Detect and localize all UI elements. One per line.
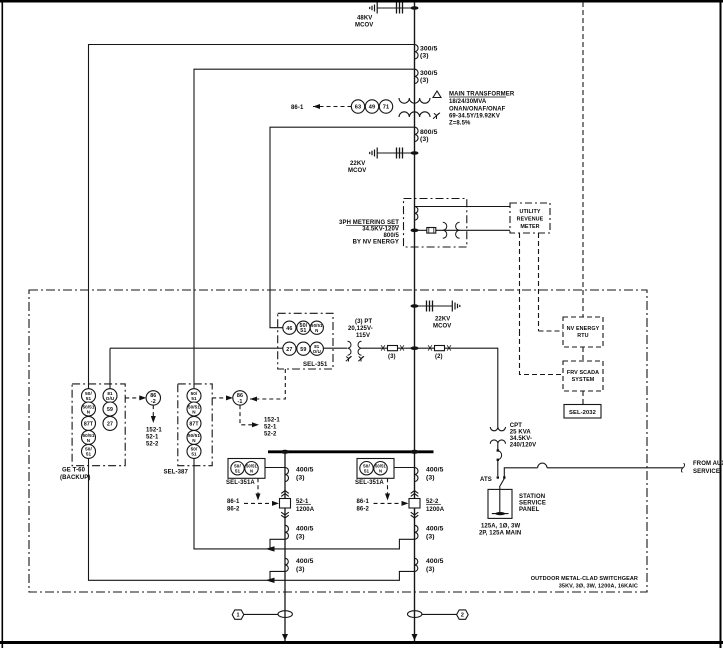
svg-text:1200A: 1200A (426, 507, 445, 513)
label 3PH METERING SET (339, 220, 400, 246)
node hexagon 1 (232, 610, 244, 619)
svg-text:2P, 125A MAIN: 2P, 125A MAIN (479, 531, 521, 537)
wye ground symbol (433, 113, 440, 119)
svg-text:SEL-351A: SEL-351A (226, 480, 255, 486)
svg-text:152-1: 152-1 (264, 418, 280, 424)
svg-text:ONAN/ONAF/ONAF: ONAN/ONAF/ONAF (449, 106, 506, 112)
CT feeder2 400/5 upper (415, 468, 419, 482)
svg-text:800/5: 800/5 (383, 233, 399, 239)
svg-text:SERVICE, 2: SERVICE, 2 (693, 469, 723, 475)
svg-text:71: 71 (383, 105, 389, 111)
wire SCADA to SEL-2032 (582, 391, 584, 405)
svg-text:35KV, 3Ø, 3W, 1200A, 16KAIC: 35KV, 3Ø, 3W, 1200A, 16KAIC (559, 584, 638, 590)
svg-text:22KV: 22KV (350, 161, 365, 167)
svg-text:FROM AUX: FROM AUX (693, 461, 723, 467)
GE T-60 relay box (72, 384, 125, 466)
wire PT to bus (362, 347, 415, 349)
svg-text:152-1: 152-1 (146, 428, 162, 434)
svg-text:SEL-2032: SEL-2032 (569, 410, 596, 416)
svg-text:SEL-351A: SEL-351A (355, 480, 384, 486)
svg-text:300/5: 300/5 (420, 46, 438, 53)
node feeder 2 tap (411, 450, 419, 454)
CT feeder1 400/5 upper (285, 468, 289, 482)
wire bus to CPT feed (415, 348, 498, 427)
svg-text:400/5: 400/5 (296, 467, 314, 474)
svg-text:400/5: 400/5 (426, 467, 444, 474)
node arrester junction 22kv upper (411, 151, 419, 155)
svg-text:86-2: 86-2 (227, 507, 240, 513)
PT metering windings (443, 222, 460, 238)
svg-text:27: 27 (286, 347, 292, 353)
svg-text:-2: -2 (151, 399, 156, 405)
fuse CPT cutout (497, 449, 502, 461)
node feeder 1 tap (281, 450, 289, 454)
wire feeder2 exit arrow (412, 634, 418, 641)
svg-text:86-1: 86-1 (227, 499, 240, 505)
PT station service voltage transformers (346, 341, 364, 361)
svg-text:52-1: 52-1 (146, 435, 159, 441)
wire dashed telemetry from top (582, 2, 584, 317)
svg-text:FRV SCADA: FRV SCADA (567, 370, 599, 376)
svg-text:O/U: O/U (106, 396, 115, 401)
CPT transformer (490, 427, 505, 444)
svg-text:51: 51 (235, 468, 241, 473)
svg-text:(3) PT: (3) PT (355, 319, 373, 325)
wire CT lower secondary (270, 571, 285, 580)
svg-text:UTILITY: UTILITY (519, 209, 540, 215)
svg-text:51: 51 (191, 396, 197, 401)
wire feeder 1 vertical (284, 452, 286, 641)
wire SEL-351A trip dashed (257, 478, 259, 494)
transformer T1 main windings (399, 98, 430, 117)
svg-text:(3): (3) (388, 354, 396, 360)
svg-text:(3): (3) (420, 77, 429, 84)
svg-text:SYSTEM: SYSTEM (572, 377, 595, 383)
switch ATS blade (499, 479, 504, 488)
node hexagon 2 (457, 610, 469, 619)
wire SEL-351A trip dashed f2 (387, 478, 389, 494)
svg-text:400/5: 400/5 (426, 526, 444, 533)
node arrester junction 22kv inner (411, 304, 419, 308)
wire RTU to SCADA (582, 347, 584, 361)
svg-text:51: 51 (300, 328, 306, 334)
wire main 69kV/34.5kV bus vertical (414, 2, 416, 641)
svg-text:(3): (3) (420, 53, 429, 60)
svg-text:59: 59 (300, 347, 306, 353)
label switchgear (531, 576, 638, 590)
wire SEL-351 to 86-1 dashed (250, 369, 285, 399)
svg-text:(3): (3) (426, 566, 435, 573)
SEL-2032 box (564, 405, 601, 419)
breaker 52-1 (281, 491, 289, 497)
relay 86-2 lockout (125, 397, 140, 399)
node PT junction on bus (411, 346, 419, 350)
svg-text:63: 63 (355, 105, 361, 111)
relay 86-1 lockout (212, 397, 226, 399)
svg-text:86-2: 86-2 (357, 507, 370, 513)
svg-text:34.5KV-: 34.5KV- (510, 436, 532, 442)
svg-text:(3): (3) (426, 475, 435, 482)
svg-text:34.5KV-120V: 34.5KV-120V (362, 227, 399, 233)
CT metering 800/5 (415, 207, 418, 221)
svg-text:48KV: 48KV (357, 16, 372, 22)
svg-text:(3): (3) (296, 534, 305, 541)
svg-text:(3): (3) (420, 136, 429, 143)
metering set box (404, 199, 467, 248)
node arrester junction top (411, 6, 419, 10)
svg-text:(BACKUP): (BACKUP) (60, 475, 90, 481)
FRV SCADA SYSTEM box (563, 361, 603, 391)
wire CT3 secondary to SEL-351 (270, 127, 415, 328)
svg-text:GE T-60: GE T-60 (62, 468, 86, 474)
SEL-351 relay box (278, 313, 333, 369)
CT 300/5 first (415, 45, 438, 60)
svg-text:MCOV: MCOV (433, 324, 451, 330)
svg-text:87T: 87T (189, 421, 199, 427)
svg-text:ATS: ATS (480, 477, 492, 483)
wire CT1 secondary to GE T-60 (89, 45, 415, 581)
svg-text:SEL-387: SEL-387 (164, 470, 189, 476)
svg-text:51: 51 (364, 468, 370, 473)
utility revenue meter box (510, 203, 550, 233)
svg-text:69-34.5Y/19.92KV: 69-34.5Y/19.92KV (449, 114, 500, 120)
svg-text:N: N (192, 410, 196, 415)
wire to hexagon 1 (244, 613, 278, 615)
fuse PT (3) (381, 345, 404, 360)
wire metering CT secondary (415, 206, 511, 208)
svg-text:BY NV ENERGY: BY NV ENERGY (353, 240, 399, 246)
wire feeder1 exit arrow (282, 634, 288, 641)
svg-text:400/5: 400/5 (426, 558, 444, 565)
svg-text:86-1: 86-1 (291, 105, 304, 111)
svg-text:SERVICE: SERVICE (519, 501, 546, 507)
svg-text:REVENUE: REVENUE (517, 217, 544, 223)
CT feeder1 400/5 mid (285, 525, 289, 539)
wire CT to SEL-351A (258, 467, 285, 469)
arrester 22KV MCOV inner (415, 301, 460, 330)
wire PT secondary line to relays (110, 347, 347, 349)
wire CT2 secondary to SEL-387 (194, 69, 415, 549)
wire CT mid secondary (270, 539, 285, 549)
svg-text:MCOV: MCOV (355, 23, 373, 29)
breaker 52-2 (411, 491, 419, 497)
svg-text:STATION: STATION (519, 494, 545, 500)
relay SEL-351A feeder2 (357, 459, 394, 479)
svg-text:CPT: CPT (510, 423, 523, 429)
svg-text:N: N (192, 438, 196, 443)
svg-text:RTU: RTU (577, 333, 588, 339)
wire CPT secondary down (497, 444, 499, 450)
arrester 48KV MCOV (355, 3, 415, 29)
relay SEL-351A feeder1 (228, 459, 265, 479)
svg-text:1: 1 (236, 613, 239, 619)
bus main switchgear bus bar (268, 450, 434, 453)
relay 63 49 71 transformer devices (291, 100, 393, 113)
node metering junction (411, 229, 419, 233)
svg-text:51: 51 (86, 396, 92, 401)
svg-text:125A, 1Ø, 3W: 125A, 1Ø, 3W (481, 524, 520, 530)
svg-text:52-1: 52-1 (264, 425, 277, 431)
svg-text:Z=8.5%: Z=8.5% (449, 121, 471, 127)
station service panel (488, 489, 512, 518)
switchgear boundary (29, 290, 647, 592)
svg-text:MCOV: MCOV (348, 168, 366, 174)
svg-text:PANEL: PANEL (519, 507, 540, 513)
svg-text:2: 2 (461, 613, 464, 619)
wire to hexagon 2 (422, 613, 457, 615)
svg-text:NV ENERGY: NV ENERGY (567, 326, 600, 332)
CT feeder1 400/5 lower (285, 558, 288, 571)
svg-text:O/U: O/U (313, 349, 321, 354)
SEL-387 relay box (178, 384, 212, 466)
label MAIN TRANSFORMER (449, 92, 515, 127)
svg-text:(3): (3) (296, 566, 305, 573)
svg-text:SEL-351: SEL-351 (303, 362, 328, 368)
svg-text:800/5: 800/5 (420, 129, 438, 136)
svg-text:N: N (87, 410, 91, 415)
svg-text:27: 27 (107, 421, 113, 427)
fuse CPT (2) (428, 345, 451, 360)
svg-text:18/24/30MVA: 18/24/30MVA (449, 99, 487, 105)
svg-text:N: N (87, 438, 91, 443)
wire metering PT line (415, 229, 511, 231)
svg-text:52-2: 52-2 (264, 432, 277, 438)
wire from aux service (504, 468, 683, 477)
svg-text:25 KVA: 25 KVA (510, 430, 532, 436)
svg-text:51: 51 (191, 452, 197, 457)
svg-text:51: 51 (86, 452, 92, 457)
CT feeder2 400/5 mid (415, 525, 419, 539)
svg-text:87T: 87T (84, 421, 94, 427)
svg-text:OUTDOOR METAL-CLAD SWITCHGEAR: OUTDOOR METAL-CLAD SWITCHGEAR (531, 576, 638, 582)
fuse metering (427, 228, 436, 234)
svg-text:300/5: 300/5 (420, 70, 438, 77)
CT 300/5 second (415, 69, 438, 84)
svg-text:N: N (250, 468, 253, 473)
delta symbol (433, 91, 441, 98)
svg-text:400/5: 400/5 (296, 558, 314, 565)
wire CT to SEL-351A f2 (388, 467, 415, 469)
svg-text:20,125V-: 20,125V- (348, 326, 373, 332)
svg-text:59: 59 (107, 407, 113, 413)
svg-text:(3): (3) (296, 475, 305, 482)
NV ENERGY RTU box (563, 317, 603, 347)
wire dashed from meter to RTU (520, 233, 539, 331)
svg-text:(3): (3) (426, 534, 435, 541)
svg-text:N: N (379, 468, 382, 473)
svg-text:46: 46 (286, 326, 292, 332)
svg-text:115V: 115V (356, 333, 370, 339)
svg-text:-1: -1 (238, 399, 243, 405)
cable termination feeder2 (408, 611, 422, 618)
svg-text:86-1: 86-1 (357, 499, 370, 505)
svg-text:METER: METER (520, 224, 539, 230)
svg-text:1200A: 1200A (296, 507, 315, 513)
wire GE T-60 voltage input (109, 348, 111, 389)
svg-text:(2): (2) (435, 354, 443, 360)
svg-text:N: N (315, 328, 318, 333)
cable termination feeder1 (278, 611, 292, 618)
svg-text:400/5: 400/5 (296, 526, 314, 533)
CT 800/5 (415, 127, 438, 143)
svg-text:22KV: 22KV (435, 317, 450, 323)
svg-text:52-2: 52-2 (146, 442, 159, 448)
arrester 22KV MCOV upper (348, 148, 415, 175)
svg-text:49: 49 (369, 105, 375, 111)
CT feeder2 400/5 lower (415, 558, 418, 571)
svg-text:240/120V: 240/120V (510, 443, 537, 449)
